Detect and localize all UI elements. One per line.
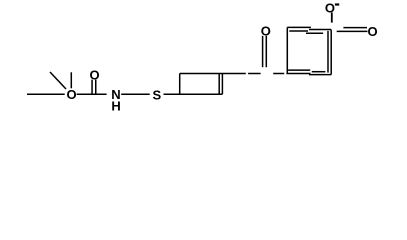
bond N to S — [121, 93, 150, 95]
svg-text:O: O — [66, 87, 76, 102]
double bond C=O carbamate — [91, 80, 93, 94]
bond CH3 horizontal to O (tert-butyl methyl) — [27, 93, 65, 95]
ring2 top side inner (double bond) — [289, 30, 308, 32]
double bond C=O ketone — [262, 36, 264, 67]
ring2 right side outer — [330, 30, 332, 75]
svg-text:O: O — [261, 24, 271, 39]
bond C to O- (carboxylate) — [331, 13, 333, 23]
chain dash segment 2 — [273, 73, 284, 75]
svg-text:H: H — [111, 99, 120, 114]
svg-text:O: O — [89, 67, 99, 82]
svg-text:S: S — [152, 87, 161, 102]
svg-text:O: O — [325, 0, 335, 15]
bond CH3 vertical to O (tert-butyl methyl) — [70, 72, 72, 88]
ring2 left side — [286, 27, 288, 73]
minus sign of O- — [335, 3, 339, 5]
chain dash segment 1 — [248, 73, 261, 75]
ring2 bottom side inner (double bond) — [288, 69, 310, 71]
double bond C=O carboxylate — [337, 30, 368, 32]
ring1 right side double bond — [221, 74, 223, 95]
ring1 left side — [179, 74, 181, 95]
bond O to N through carbamate carbon — [77, 93, 107, 95]
ring2 bottom side outer + chain attach — [286, 73, 310, 75]
ring1 top side continuing into chain bond — [180, 73, 246, 75]
svg-text:O: O — [367, 24, 377, 39]
bond CH3 diagonal to O (tert-butyl methyl) — [50, 72, 66, 89]
bond S to ring1 + ring1 bottom side — [164, 93, 223, 95]
ring2 top side outer — [287, 26, 311, 28]
ring2 right side inner (double bond) — [327, 31, 329, 73]
